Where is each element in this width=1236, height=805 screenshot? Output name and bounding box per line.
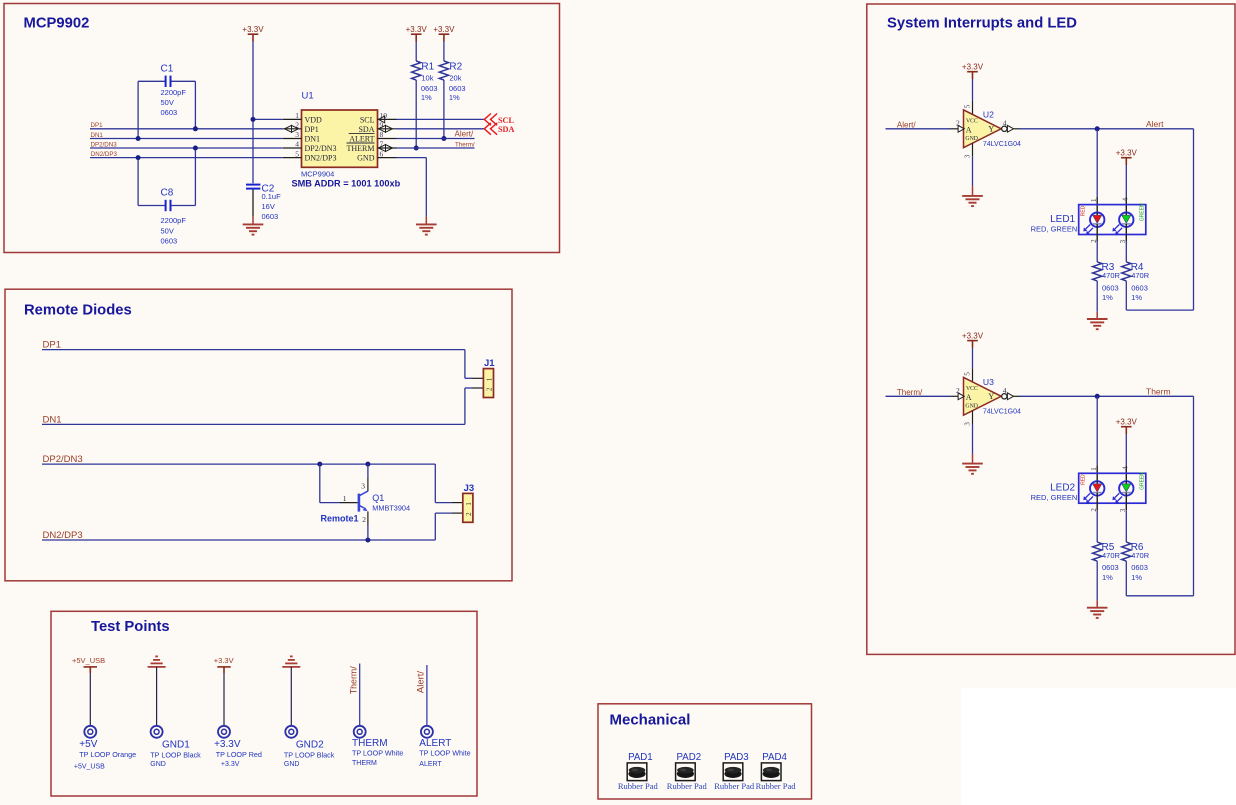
LED LED2 green element [1119,481,1133,495]
off-page connector SCL [484,114,491,126]
svg-text:470R: 470R [1131,551,1150,560]
svg-text:SCL: SCL [360,116,375,125]
svg-text:ALERT: ALERT [349,135,374,144]
LED LED1 body [1079,205,1146,235]
svg-text:VCC: VCC [966,118,978,124]
svg-text:GREEN: GREEN [1139,472,1145,490]
svg-text:0603: 0603 [161,108,178,117]
sheet border Remote Diodes section [5,289,512,581]
U3 input arrow [958,393,964,400]
svg-text:Rubber Pad: Rubber Pad [667,781,708,791]
svg-text:Alert: Alert [1146,119,1164,129]
svg-text:Rubber Pad: Rubber Pad [756,781,797,791]
svg-text:1%: 1% [1131,293,1142,302]
LED LED2 red element [1090,481,1104,495]
wire DN1 to J1 pin 2 [42,423,465,425]
U2 output arrow [1007,125,1013,132]
svg-text:2: 2 [465,512,473,516]
svg-text:+3.3V: +3.3V [1116,148,1138,157]
svg-text:5: 5 [964,372,972,376]
node C8-DN2/DP3 junction [136,155,141,160]
ground below U3 [962,463,983,465]
node C8-DP2/DN3 junction [193,146,198,151]
ground below R5 [1087,607,1108,609]
U1 pin 2 DP1 IO arrow [285,125,292,132]
LED LED2 body [1079,473,1146,503]
op-amp inverter U2 74LVC1G04 [964,110,1002,148]
svg-text:1: 1 [486,377,494,381]
node R1-THERM junction [414,146,419,151]
sheet border Test Points section [51,611,477,796]
sheet border Mechanical section [598,704,812,799]
svg-text:TP LOOP White: TP LOOP White [419,748,470,757]
svg-text:Rubber Pad: Rubber Pad [618,781,659,791]
wire DP2/DN3 to J3 pin 1 [42,463,435,465]
wire U3 GND pin 3 [972,411,974,424]
U2 output bubble [1002,126,1007,131]
svg-text:4: 4 [295,140,299,149]
svg-text:GREEN: GREEN [1139,203,1145,221]
svg-text:1%: 1% [1102,293,1113,302]
resistor R6 [1122,542,1131,561]
wire SDA [397,128,485,130]
svg-text:GND1: GND1 [162,740,190,751]
transistor Q1 MMBT3904 [358,494,361,512]
svg-text:74LVC1G04: 74LVC1G04 [983,141,1021,148]
svg-text:J1: J1 [484,358,495,369]
svg-text:R1: R1 [421,61,434,72]
node Q1 base junction [317,462,322,467]
node C1-DN1 junction [136,136,141,141]
test point GND1 [151,726,163,738]
wire TP ALERT [426,665,428,726]
node R2-ALERT junction [441,136,446,141]
U2 input arrow [958,125,964,132]
svg-text:3: 3 [964,422,972,426]
svg-text:GND2: GND2 [296,740,324,751]
wire U1 GND pin to ground [397,157,427,159]
resistor R1 [415,42,417,62]
svg-text:470R: 470R [1131,271,1150,280]
U1 left pin stubs 1-5 [283,118,302,120]
svg-text:4: 4 [1122,466,1130,470]
svg-text:Y: Y [988,392,994,401]
wire SCL [397,118,485,120]
svg-text:RED: RED [1080,474,1086,485]
svg-text:0603: 0603 [1131,563,1148,572]
svg-text:+3.3V: +3.3V [433,25,455,34]
wire TP GND1 [156,667,158,726]
svg-text:SDA: SDA [358,125,374,134]
svg-text:TP LOOP White: TP LOOP White [352,748,403,757]
svg-text:+5V: +5V [79,739,97,750]
capacitor C8 [138,205,165,207]
white panel bottom right [961,688,1236,805]
svg-text:+3.3V: +3.3V [214,739,241,750]
svg-text:1%: 1% [1102,573,1113,582]
op-amp U1 MCP9904 body [302,110,378,167]
svg-text:THERM: THERM [352,760,377,767]
wire R6 feedback to Therm [1125,561,1127,596]
U3 output bubble [1002,394,1007,399]
svg-text:DP1: DP1 [305,125,319,134]
svg-text:TP LOOP Black: TP LOOP Black [284,751,335,760]
wire R4 feedback to Alert [1125,281,1127,310]
svg-text:3: 3 [361,482,365,491]
svg-text:1%: 1% [1131,573,1142,582]
wire net DN2/DP3 [90,157,283,159]
svg-text:+5V_USB: +5V_USB [72,656,105,665]
svg-text:+3.3V: +3.3V [962,62,984,71]
svg-text:SCL: SCL [498,116,514,125]
svg-text:16V: 16V [262,202,275,211]
svg-text:GND: GND [284,761,300,768]
svg-text:Test Points: Test Points [91,619,170,635]
svg-text:5: 5 [964,104,972,108]
wire LED1 pin 3 to R4 [1125,227,1127,242]
wire DP1 to J1 pin 1 [42,349,465,351]
test point +5V [84,726,96,738]
svg-text:2200pF: 2200pF [161,88,187,97]
svg-text:TP LOOP Orange: TP LOOP Orange [79,750,136,759]
svg-text:TP LOOP Red: TP LOOP Red [216,750,262,759]
svg-text:R2: R2 [449,61,462,72]
svg-text:ALERT: ALERT [419,761,442,768]
wire net DN1 [90,138,283,140]
svg-text:2: 2 [486,387,494,391]
resistor R2 [443,42,445,62]
svg-text:VDD: VDD [305,116,323,125]
wire input Therm/ [886,395,951,397]
svg-text:Y: Y [988,124,994,133]
wire +3.3V to LED2 pin 4 [1125,434,1127,466]
resistor R5 [1093,542,1102,561]
svg-text:Therm/: Therm/ [348,666,358,694]
U1 pin 9 SDA IO arrow [379,125,386,132]
svg-text:1: 1 [295,111,299,120]
LED LED1 red element [1090,213,1104,227]
wire output Alert [1014,128,1020,130]
svg-text:C8: C8 [161,187,174,198]
wire input Alert/ [886,128,951,130]
wire R3 to ground [1096,281,1098,312]
svg-text:GND: GND [150,761,166,768]
U1 ALERT overbar [349,132,375,134]
wire output Therm [1014,395,1020,397]
svg-text:PAD4: PAD4 [762,752,787,763]
wire TP THERM [359,664,361,727]
svg-text:470R: 470R [1102,551,1121,560]
ground below U2 [962,195,983,197]
svg-text:A: A [966,393,972,402]
svg-text:1%: 1% [449,93,460,102]
svg-text:0.1uF: 0.1uF [262,192,282,201]
wire U3 VCC pin 5 [972,348,974,369]
svg-text:RED, GREEN: RED, GREEN [1031,224,1078,233]
svg-text:GND: GND [357,154,375,163]
svg-text:2: 2 [956,118,960,127]
svg-text:2: 2 [956,386,960,395]
svg-text:LED2: LED2 [1050,483,1075,494]
svg-text:RED: RED [1080,205,1086,216]
svg-text:SMB ADDR = 1001 100xb: SMB ADDR = 1001 100xb [292,179,401,189]
wire TP +3.3V [223,673,225,726]
U1 pin 7 THERM IO arrow [379,145,386,152]
svg-text:+3.3V: +3.3V [242,25,264,34]
svg-text:C1: C1 [161,64,174,75]
ground symbol (TP GND1) [148,666,166,668]
svg-text:Alert/: Alert/ [455,130,474,139]
svg-text:PAD1: PAD1 [628,752,653,763]
svg-text:10k: 10k [421,73,433,82]
svg-text:Remote Diodes: Remote Diodes [24,303,132,319]
svg-text:DN2/DP3: DN2/DP3 [305,154,337,163]
svg-text:DN2/DP3: DN2/DP3 [91,151,118,158]
svg-text:74LVC1G04: 74LVC1G04 [983,409,1021,416]
wire Alert/ [397,138,475,140]
svg-text:U3: U3 [983,377,994,387]
resistor R4 [1122,262,1131,281]
svg-text:SDA: SDA [498,125,514,134]
resistor R3 [1093,262,1102,281]
svg-text:0603: 0603 [1102,283,1119,292]
svg-text:1: 1 [343,494,347,503]
svg-text:PAD3: PAD3 [724,752,749,763]
svg-text:5: 5 [295,149,299,158]
svg-text:DN1: DN1 [91,132,104,139]
wire +3.3V to LED1 pin 4 [1125,165,1127,197]
svg-text:Therm/: Therm/ [455,141,475,148]
svg-text:0603: 0603 [161,237,178,246]
svg-text:U2: U2 [983,109,994,119]
svg-text:+3.3V: +3.3V [962,331,984,340]
U1 right pin stubs 6-10 [378,118,397,120]
svg-text:+3.3V: +3.3V [221,761,240,768]
capacitor C2 [246,184,260,186]
capacitor C1 [138,80,165,82]
wire DN2/DP3 to J3 pin 2 [42,539,435,541]
node Q1 emitter junction [365,538,370,543]
svg-text:0603: 0603 [1131,283,1148,292]
wire Q1 emitter [367,512,369,527]
wire LED2 pin 2 to R5 [1096,496,1098,511]
ground symbol (TP GND2) [282,666,300,668]
sheet border System Interrupts and LED section [867,4,1235,654]
svg-text:DP2/DN3: DP2/DN3 [91,141,118,148]
svg-text:1%: 1% [421,93,432,102]
svg-text:System Interrupts and LED: System Interrupts and LED [887,16,1077,32]
wire TP +5V [89,673,91,726]
test point +3.3V [218,726,230,738]
wire net DP2/DN3 [90,147,283,149]
node Therm junction [1095,394,1100,399]
svg-text:+3.3V: +3.3V [1116,417,1138,426]
svg-text:470R: 470R [1102,271,1121,280]
svg-text:1: 1 [1090,198,1098,202]
svg-text:2: 2 [362,515,366,524]
wire net DP1 [90,128,283,130]
wire +3.3V vertical to VDD and C2 [252,42,254,184]
U1 THERM overbar [347,142,375,144]
svg-text:4: 4 [1003,386,1007,395]
svg-text:Remote1: Remote1 [321,514,359,524]
svg-text:MMBT3904: MMBT3904 [372,504,410,513]
svg-text:1: 1 [465,502,473,506]
svg-text:A: A [966,126,972,135]
svg-text:2200pF: 2200pF [161,216,187,225]
ground below C2 [243,223,264,225]
svg-text:Q1: Q1 [372,493,384,503]
svg-text:DP1: DP1 [91,122,104,129]
svg-text:3: 3 [964,154,972,158]
svg-text:0603: 0603 [1102,563,1119,572]
svg-text:THERM: THERM [347,144,375,153]
svg-text:GND: GND [965,403,978,409]
svg-text:+3.3V: +3.3V [406,25,428,34]
test point THERM [354,726,366,738]
wire VDD to U1 pin 1 [253,118,283,120]
svg-text:Alert/: Alert/ [416,671,427,694]
wire LED1 pin 2 to R3 [1096,227,1098,242]
svg-text:J3: J3 [464,483,475,494]
connector J3 [463,493,473,522]
test point ALERT [421,726,433,738]
svg-text:8: 8 [380,130,384,139]
svg-text:Therm/: Therm/ [897,388,923,397]
wire Alert to LED1 pin 1 [1096,129,1098,197]
svg-text:4: 4 [1003,118,1007,127]
sheet border MCP9902 section [4,4,560,253]
svg-text:4: 4 [1122,197,1130,201]
svg-text:Rubber Pad: Rubber Pad [714,781,755,791]
svg-text:MCP9902: MCP9902 [24,16,90,32]
wire Therm to LED2 pin 1 [1096,396,1098,465]
connector J1 [483,369,493,398]
svg-text:RED, GREEN: RED, GREEN [1031,493,1078,502]
LED LED1 green element [1119,213,1133,227]
node Alert junction [1095,126,1100,131]
svg-text:3: 3 [295,130,299,139]
svg-text:+3.3V: +3.3V [214,656,234,665]
U1 pin 10 SCL arrow [379,116,385,123]
wire Therm/ [397,147,475,149]
svg-text:DN1: DN1 [305,135,321,144]
wire TP GND2 [290,667,292,726]
svg-text:TP LOOP Black: TP LOOP Black [150,751,201,760]
svg-text:GND: GND [965,136,978,142]
svg-text:1: 1 [1090,467,1098,471]
svg-text:LED1: LED1 [1050,214,1075,225]
wire Q1 base [319,464,321,503]
svg-text:Mechanical: Mechanical [610,712,691,729]
svg-text:Alert/: Alert/ [897,120,916,129]
svg-text:U1: U1 [302,91,314,102]
ground below U1 GND [416,223,437,225]
node C1-DP1 junction [193,126,198,131]
node Q1 collector junction [365,462,370,467]
svg-text:20k: 20k [449,73,461,82]
svg-text:Therm: Therm [1146,387,1171,397]
svg-text:0603: 0603 [262,212,279,221]
off-page connector SDA [484,123,491,135]
node VDD junction [251,117,256,122]
wire U2 VCC pin 5 [972,79,974,101]
op-amp inverter U3 74LVC1G04 [964,377,1002,415]
svg-text:MCP9904: MCP9904 [301,170,334,179]
U3 output arrow [1007,393,1013,400]
svg-text:VCC: VCC [966,386,978,392]
wire R5 to ground [1096,561,1098,600]
ground below R3 [1087,318,1108,320]
svg-text:+5V_USB: +5V_USB [74,764,105,771]
svg-text:50V: 50V [161,227,174,236]
svg-text:PAD2: PAD2 [677,752,702,763]
wire LED2 pin 3 to R6 [1125,496,1127,511]
svg-text:50V: 50V [161,98,174,107]
wire U2 GND pin 3 [972,143,974,156]
svg-text:DP2/DN3: DP2/DN3 [305,144,337,153]
wire Q1 collector [367,464,369,478]
test point GND2 [285,726,297,738]
